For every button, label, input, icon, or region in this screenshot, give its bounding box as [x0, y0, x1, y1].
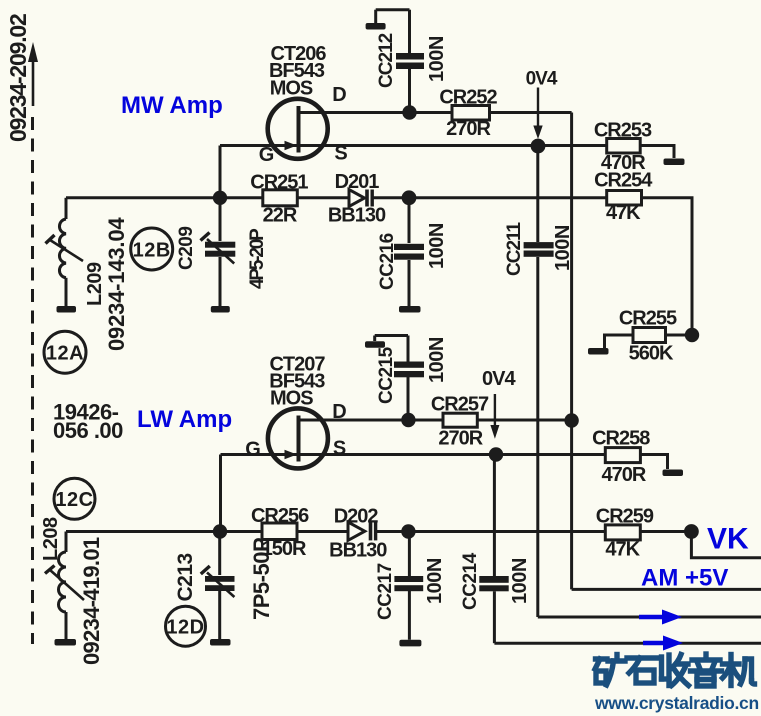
part number 19426-056.00	[53, 400, 123, 444]
svg-text:C209: C209	[176, 227, 197, 270]
svg-text:BB130: BB130	[328, 205, 386, 227]
svg-text:12B: 12B	[133, 240, 171, 262]
inductor L209 (tunable)	[46, 198, 84, 306]
svg-text:12D: 12D	[166, 617, 204, 639]
ground (C213)	[210, 639, 231, 646]
capacitor CC212	[376, 10, 424, 113]
callout circle 12A	[44, 331, 86, 373]
svg-text:CC214: CC214	[460, 552, 481, 610]
svg-text:12A: 12A	[46, 343, 84, 365]
svg-text:056 .00: 056 .00	[53, 418, 123, 443]
svg-text:MOS: MOS	[270, 78, 313, 100]
svg-text:S: S	[334, 143, 347, 165]
resistor CR257	[431, 393, 489, 449]
svg-text:47K: 47K	[605, 539, 640, 561]
resistor CR251	[250, 172, 308, 227]
node CC212/drain junction	[402, 105, 416, 119]
svg-text:100N: 100N	[552, 225, 574, 271]
resistor CR256	[251, 505, 309, 560]
node D202/CC217 junction	[401, 524, 415, 538]
svg-text:CR255: CR255	[619, 308, 677, 330]
capacitor CC217	[394, 532, 423, 640]
svg-text:4P5-20P: 4P5-20P	[247, 228, 268, 289]
char shi	[627, 655, 657, 660]
watermark 矿石收音机 (drawn)	[595, 654, 755, 686]
ground (CR255)	[588, 348, 609, 355]
svg-text:270R: 270R	[438, 427, 483, 449]
svg-text:D: D	[332, 401, 346, 423]
svg-text:560K: 560K	[629, 343, 674, 365]
svg-text:CR251: CR251	[250, 172, 308, 194]
svg-text:CR254: CR254	[594, 170, 653, 192]
svg-text:100N: 100N	[424, 558, 446, 604]
svg-text:09234-143.04: 09234-143.04	[104, 217, 129, 351]
node D201/CC216 junction	[402, 190, 417, 205]
svg-text:100N: 100N	[426, 223, 448, 269]
svg-text:100N: 100N	[509, 558, 531, 604]
ground (L209)	[57, 306, 77, 313]
svg-text:L208: L208	[40, 517, 62, 561]
transistor U=CT207 BF543 MOS	[245, 354, 346, 469]
svg-text:CR257: CR257	[431, 393, 489, 415]
wire LW source row y=454.5	[221, 453, 606, 456]
char shou	[659, 657, 664, 679]
svg-text:VK: VK	[707, 523, 749, 556]
svg-text:C213: C213	[174, 553, 197, 601]
callout circle 12B	[131, 228, 173, 270]
char ji	[723, 661, 740, 666]
resistor CR259	[596, 505, 654, 560]
svg-text:D202: D202	[334, 505, 379, 527]
svg-text:S: S	[333, 438, 346, 460]
svg-text:G: G	[259, 144, 274, 166]
varicap diode D201 BB130	[328, 171, 386, 227]
callout circle 12D	[166, 606, 206, 646]
node LW gate/L208/C213 junction	[213, 524, 227, 538]
ground (CC217)	[399, 640, 421, 647]
ground (CC215 top)	[365, 341, 385, 348]
svg-text:0V4: 0V4	[526, 69, 558, 90]
wire AM+5V horizontal to right edge	[572, 588, 761, 591]
svg-text:AM +5V: AM +5V	[641, 565, 728, 592]
svg-text:D201: D201	[335, 171, 380, 193]
node MW gate/L209/C209 junction	[213, 191, 227, 205]
resistor CR255	[605, 308, 693, 365]
svg-text:G: G	[245, 439, 260, 461]
svg-text:09234-419.01: 09234-419.01	[79, 537, 104, 665]
transistor U=CT206 BF543 MOS	[259, 43, 348, 166]
resistor CR253	[594, 120, 652, 175]
svg-text:BB130: BB130	[329, 539, 387, 561]
capacitor CC215	[375, 336, 424, 421]
svg-text:470R: 470R	[601, 464, 646, 486]
capacitor CC216	[394, 198, 424, 306]
svg-text:22R: 22R	[263, 205, 298, 227]
capacitor CC214 (series, output line)	[479, 455, 761, 644]
svg-text:CC211: CC211	[504, 221, 525, 276]
svg-text:CC217: CC217	[375, 563, 396, 620]
node LW source/CC214 junction	[489, 447, 503, 461]
inductor L208 (tunable)	[45, 532, 84, 640]
svg-text:0V4: 0V4	[482, 368, 516, 390]
svg-text:CR256: CR256	[251, 505, 309, 527]
resistor CR254	[594, 170, 653, 224]
wire MW D row: CT206 drain to CC212 node to CR252 to right rail corner	[300, 111, 572, 114]
node AM+5V/CR257 junction	[564, 413, 578, 427]
svg-text:D: D	[332, 84, 346, 106]
svg-text:LW Amp: LW Amp	[137, 406, 232, 433]
svg-text:MOS: MOS	[270, 388, 313, 410]
char kuang	[596, 656, 608, 661]
net label 09234-209.02 (rotated)	[5, 14, 31, 142]
wire MW input row y=197.8	[66, 196, 263, 199]
resistor CR252	[439, 87, 497, 141]
ground (right of CR253)	[664, 159, 685, 166]
svg-text:09234-209.02: 09234-209.02	[5, 14, 31, 142]
wire VK output step	[691, 532, 761, 558]
svg-text:CC215: CC215	[376, 346, 397, 404]
ground (L208)	[55, 639, 77, 646]
svg-text:100N: 100N	[426, 36, 448, 82]
svg-text:12C: 12C	[55, 489, 93, 511]
node VK junction	[684, 524, 699, 539]
wire AM+5V vertical rail x=571.6	[570, 113, 573, 590]
svg-text:www.crystalradio.cn: www.crystalradio.cn	[594, 693, 759, 713]
ground (CC212 top)	[366, 23, 386, 30]
blue output arrow 2	[643, 636, 683, 651]
svg-text:CC212: CC212	[376, 33, 397, 88]
char yin	[703, 654, 708, 658]
resistor CR258	[592, 428, 650, 487]
wire LW gate down leg x=220.5	[219, 455, 222, 532]
sheet-edge dashed boundary line	[31, 117, 34, 644]
svg-text:MW Amp: MW Amp	[121, 92, 223, 119]
trimmer capacitor C209	[201, 198, 236, 306]
varicap diode D202 BB130	[329, 505, 387, 561]
svg-text:L209: L209	[84, 262, 106, 306]
node 0V4/source junction	[531, 139, 546, 154]
node 0V4 (LW) label and arrow	[482, 368, 516, 439]
callout circle 12C	[54, 478, 95, 519]
trimmer capacitor C213	[201, 532, 235, 640]
capacitor CC211 (series, on 0V4 line)	[524, 146, 761, 617]
ground (right of CR258)	[663, 470, 684, 477]
svg-text:CC216: CC216	[377, 233, 398, 290]
svg-text:CR258: CR258	[592, 428, 650, 450]
svg-text:270R: 270R	[446, 118, 491, 140]
wire MW gate down leg x=220	[219, 146, 222, 198]
wire LW D row y=420	[300, 419, 443, 422]
wire LW input row y=531.5	[66, 530, 262, 533]
ground (C209)	[211, 306, 230, 313]
blue output arrow 1	[639, 610, 682, 625]
svg-text:100N: 100N	[426, 337, 448, 383]
svg-text:7P5-50P: 7P5-50P	[249, 538, 274, 620]
wire MW gate/source row y=145.5	[220, 144, 607, 147]
svg-text:CR259: CR259	[596, 505, 654, 527]
ground (CC216)	[399, 306, 421, 313]
svg-text:CR252: CR252	[439, 87, 497, 109]
node 0V4 (MW) label and arrow	[526, 69, 558, 140]
svg-text:CR253: CR253	[594, 120, 652, 142]
off-sheet arrow to 09234-209.02	[28, 42, 38, 106]
node CR255/rail junction	[685, 328, 699, 342]
svg-text:47K: 47K	[606, 202, 641, 224]
node CC215/drain junction	[401, 413, 415, 427]
